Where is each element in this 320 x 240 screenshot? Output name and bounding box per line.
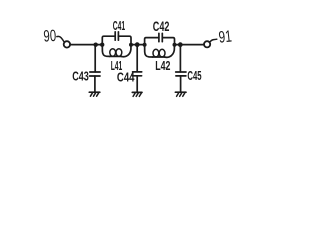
- node 91 label: [218, 27, 233, 46]
- capacitor C43: [90, 71, 100, 73]
- ground under C45: [175, 91, 186, 93]
- wire C44 to ground: [136, 76, 138, 92]
- svg-text:C41: C41: [113, 19, 125, 33]
- inductor L42 (bottom branch of tank 2): [145, 45, 153, 57]
- svg-text:C45: C45: [187, 68, 201, 83]
- node C junction dot: [178, 42, 183, 47]
- wire C43 to ground: [94, 76, 96, 92]
- terminal 90: [64, 41, 70, 47]
- svg-text:C44: C44: [117, 70, 135, 85]
- capacitor C45: [176, 71, 186, 73]
- wire tank2 to terminal 91: [175, 44, 205, 46]
- ground under C43: [89, 91, 100, 93]
- junction dot tank2 right: [173, 43, 177, 47]
- svg-text:91: 91: [218, 27, 233, 46]
- lead tick to label 91: [210, 39, 217, 42]
- wire tank1 to tank2: [131, 44, 145, 46]
- wire node B down to C44: [136, 45, 138, 72]
- ground under C44: [132, 91, 142, 93]
- svg-text:L42: L42: [155, 58, 170, 73]
- node 90 label: [43, 27, 57, 46]
- capacitor C44: [133, 71, 142, 73]
- inductor L42 label: [155, 58, 170, 73]
- capacitor C42 (top branch of tank 2): [145, 38, 159, 45]
- wire C45 to ground: [180, 76, 182, 92]
- lead tick from label 90: [57, 36, 64, 41]
- inductor L41 label: [111, 58, 123, 73]
- wire terminal90 to node A: [70, 44, 102, 46]
- svg-text:90: 90: [43, 27, 57, 46]
- capacitor C42 label: [153, 19, 170, 34]
- junction dot at tank1 left: [100, 43, 104, 47]
- capacitor C41 label: [113, 19, 125, 33]
- wire node C down to C45: [179, 45, 181, 72]
- wire node A down to C43: [94, 45, 96, 72]
- junction dot tank2 left: [143, 43, 147, 47]
- capacitor C41 (top branch of tank 1): [102, 36, 115, 44]
- terminal 91: [204, 41, 210, 47]
- svg-text:C43: C43: [72, 68, 89, 83]
- svg-text:C42: C42: [153, 19, 170, 34]
- node A junction dot: [94, 43, 98, 47]
- node B junction dot: [135, 42, 140, 47]
- junction dot tank1 right: [129, 43, 133, 47]
- inductor L41 (bottom branch of tank 1): [102, 45, 109, 57]
